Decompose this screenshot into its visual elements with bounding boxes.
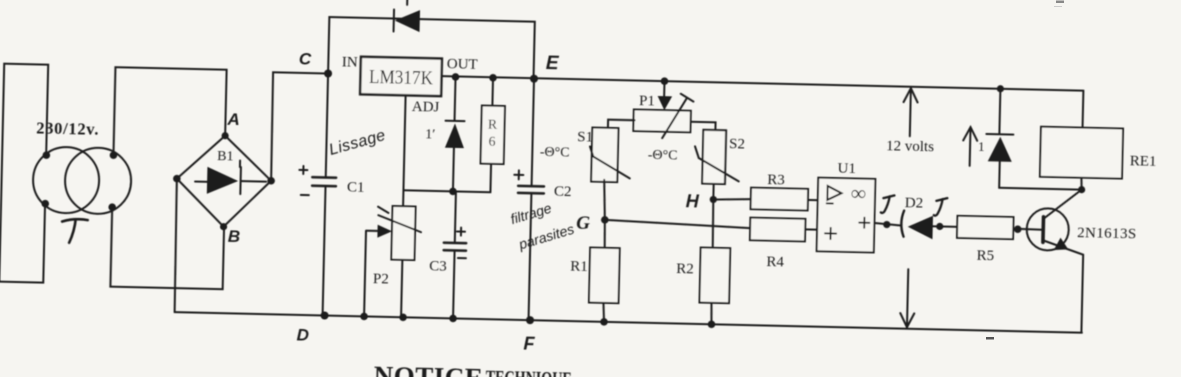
wire junction to R4 — [605, 220, 751, 228]
diode 1' — [424, 76, 466, 191]
svg-text:P2: P2 — [373, 271, 389, 287]
resistor R5 — [956, 216, 1043, 265]
diode D2 — [874, 194, 958, 239]
svg-text:R4: R4 — [766, 254, 784, 270]
scan smudges — [986, 1, 1064, 340]
svg-text:B1: B1 — [217, 149, 234, 164]
node F — [523, 316, 536, 354]
thermistor S2 — [647, 121, 745, 185]
svg-text:C: C — [299, 49, 312, 68]
resistor R2 — [675, 247, 730, 303]
resistor R3 — [751, 172, 819, 211]
transistor Q1 2N1613S — [1024, 188, 1137, 333]
svg-text:∞: ∞ — [851, 181, 867, 205]
svg-text:2N1613S: 2N1613S — [1077, 225, 1137, 242]
svg-text:OUT: OUT — [447, 56, 478, 73]
wire bottom rail — [175, 312, 1082, 333]
relay RE1 — [1040, 90, 1158, 195]
junction R6 top — [489, 74, 497, 82]
junction C3 rail — [449, 315, 457, 323]
potentiometer P1 — [633, 77, 694, 139]
svg-text:D2: D2 — [905, 195, 924, 211]
svg-text:G: G — [576, 213, 590, 234]
annotation 12 volts — [882, 88, 935, 328]
diode D1 freewheel — [985, 85, 1084, 190]
mark I left — [881, 195, 895, 213]
svg-text:-Θ°C: -Θ°C — [540, 145, 570, 161]
node H — [686, 191, 718, 212]
svg-text:R5: R5 — [976, 248, 994, 264]
wire bridge minus to bottom rail — [174, 179, 178, 312]
svg-text:R1: R1 — [570, 259, 588, 275]
capacitor C1 — [299, 166, 365, 196]
node bridge right vertex — [267, 177, 275, 185]
svg-text:-Θ°C: -Θ°C — [648, 148, 678, 164]
svg-text:R3: R3 — [767, 172, 785, 188]
thermistor S1 — [539, 118, 634, 182]
wire ADJ node link — [403, 95, 492, 196]
capacitor C2 — [511, 78, 574, 321]
regulator U LM317K — [341, 54, 478, 117]
node E — [530, 53, 560, 84]
svg-text:RE1: RE1 — [1130, 153, 1157, 170]
svg-text:S2: S2 — [729, 136, 745, 152]
svg-text:R2: R2 — [676, 261, 694, 277]
wire node C vertical — [323, 74, 328, 316]
wire OUT to node E — [442, 76, 1084, 91]
svg-text:E: E — [546, 53, 560, 74]
svg-text:H: H — [686, 191, 700, 211]
svg-text:D: D — [296, 325, 309, 344]
junction P2 rail — [399, 313, 407, 321]
node A — [221, 110, 240, 140]
svg-text:6: 6 — [488, 135, 495, 150]
svg-text:A: A — [226, 110, 240, 129]
svg-text:ADJ: ADJ — [412, 99, 440, 116]
junction U1 output — [883, 221, 890, 228]
junction R1 rail — [600, 318, 608, 326]
resistor R4 — [749, 218, 817, 272]
node D — [296, 311, 328, 345]
handwritten note filtrage parasites — [508, 199, 577, 254]
wire secondary bottom to node B — [110, 207, 224, 289]
op-amp U1 — [817, 160, 876, 252]
wire S1 bottom to R1 and junction — [599, 180, 610, 322]
node B — [220, 223, 241, 246]
svg-text:1: 1 — [978, 139, 985, 154]
svg-text:S1: S1 — [577, 129, 593, 145]
svg-text:C3: C3 — [429, 258, 447, 274]
svg-text:R: R — [488, 118, 498, 133]
svg-text:C2: C2 — [554, 184, 572, 200]
resistor R6 — [480, 78, 506, 193]
bridge rectifier B1 — [176, 135, 272, 228]
svg-text:1′: 1′ — [425, 127, 435, 142]
junction P2 wiper rail — [360, 313, 368, 321]
svg-text:C1: C1 — [347, 179, 365, 195]
protection diode across regulator — [328, 0, 535, 79]
transformer T — [32, 118, 133, 244]
wire node H to R3 — [713, 198, 751, 200]
potentiometer P2 — [364, 189, 422, 317]
wire bridge plus to node C — [271, 72, 328, 182]
wire mains loop — [0, 64, 48, 283]
svg-text:B: B — [228, 227, 241, 246]
svg-text:F: F — [523, 334, 535, 354]
svg-text:TECHNIQUE: TECHNIQUE — [485, 367, 571, 377]
wire S2 bottom to node H and R2 — [710, 184, 714, 324]
junction R2 rail — [708, 320, 716, 328]
svg-text:IN: IN — [342, 54, 358, 70]
svg-text:P1: P1 — [639, 93, 655, 109]
svg-text:NOTICE: NOTICE — [373, 361, 483, 377]
annotation arrow and 1 — [963, 127, 985, 166]
svg-text:U1: U1 — [837, 161, 856, 177]
node bridge left vertex — [173, 175, 181, 183]
resistor R1 — [569, 247, 619, 303]
capacitor C3 — [428, 191, 467, 319]
node C — [298, 49, 332, 77]
svg-text:230/12v.: 230/12v. — [36, 118, 99, 138]
svg-text:LM317K: LM317K — [369, 66, 434, 89]
svg-text:12 volts: 12 volts — [886, 138, 934, 155]
mark I right — [934, 198, 948, 216]
wire secondary top to node A — [113, 67, 226, 158]
junction diode 1' top — [452, 73, 460, 81]
